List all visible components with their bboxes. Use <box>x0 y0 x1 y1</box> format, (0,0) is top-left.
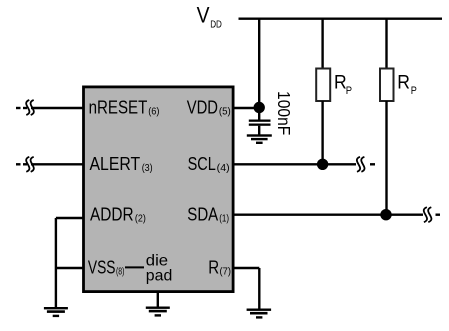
svg-text:R: R <box>334 73 347 94</box>
svg-text:V: V <box>197 3 210 28</box>
wire R2 bottom to SDA node <box>385 101 387 215</box>
svg-text:(6): (6) <box>148 106 159 118</box>
wire die pad to ground <box>157 291 159 308</box>
label RP for R2 <box>397 73 417 98</box>
wire rail to R1 top <box>321 19 323 69</box>
wire VSS pin to vertical <box>56 267 84 269</box>
wire ADDR pin to corner <box>56 217 84 219</box>
svg-text:SCL: SCL <box>188 154 216 174</box>
label die pad <box>146 252 173 284</box>
ground below R(7) <box>247 309 272 319</box>
wire SCL pin to break <box>233 163 356 165</box>
ground below die pad <box>146 307 170 317</box>
wire rail to R2 top <box>385 19 387 69</box>
wire SDA dash <box>436 213 441 215</box>
ground below ADDR/VSS <box>44 307 68 317</box>
label RP for R1 <box>334 73 352 98</box>
svg-text:P: P <box>346 85 352 97</box>
break symbol on SDA <box>424 207 432 222</box>
wire VDD top rail <box>239 18 443 20</box>
pin label ALERT(3) <box>90 154 153 174</box>
node VDD label <box>197 3 222 31</box>
wire R(7) down to ground <box>258 268 260 310</box>
pin label ADDR(2) <box>90 204 146 224</box>
pin label VSS(8) <box>88 257 125 277</box>
svg-text:(8): (8) <box>116 265 124 277</box>
wire ALERT pin <box>31 163 84 165</box>
junction SCL/R1 node <box>317 159 328 170</box>
svg-text:DD: DD <box>210 19 222 30</box>
pin label nRESET(6) <box>89 98 160 118</box>
pin label SCL(4) <box>188 154 230 174</box>
tie line VSS to die pad <box>125 266 144 268</box>
capacitor C1 bottom plate <box>249 124 271 126</box>
wire nRESET stub <box>23 107 27 109</box>
wire ADDR corner down to ground <box>55 218 57 308</box>
svg-text:100nF: 100nF <box>274 91 294 135</box>
svg-text:ALERT: ALERT <box>90 154 141 174</box>
break symbol on SCL <box>357 157 365 172</box>
svg-text:pad: pad <box>146 268 173 285</box>
svg-text:ADDR: ADDR <box>90 204 134 224</box>
svg-text:(1): (1) <box>219 212 229 224</box>
junction SDA/R2 node <box>380 209 391 220</box>
svg-text:(5): (5) <box>219 106 231 118</box>
wire nRESET pin <box>31 107 84 109</box>
pin label R(7) <box>208 258 231 278</box>
svg-text:(3): (3) <box>142 162 153 174</box>
break symbol on nRESET <box>26 100 34 115</box>
wire SDA pin to break <box>233 213 423 215</box>
wire VDD(5) pin to node <box>233 107 259 109</box>
wire C1 bottom to ground <box>258 126 260 136</box>
svg-text:SDA: SDA <box>187 204 218 224</box>
svg-text:VSS: VSS <box>88 257 116 277</box>
wire ALERT dash <box>16 163 21 165</box>
pin label VDD(5) <box>187 98 231 118</box>
wire ALERT stub <box>23 163 27 165</box>
resistor R1 body <box>316 69 330 102</box>
svg-text:VDD: VDD <box>187 98 218 118</box>
svg-text:P: P <box>411 85 417 97</box>
resistor R2 body <box>380 69 394 102</box>
svg-text:(2): (2) <box>135 212 146 224</box>
svg-text:R: R <box>208 258 219 278</box>
wire nRESET dash <box>16 107 21 109</box>
wire R(7) pin right <box>233 267 259 269</box>
wire SCL dash <box>370 163 375 165</box>
break symbol on ALERT <box>26 157 34 172</box>
wire VDD rail to C1 top <box>258 19 260 121</box>
svg-text:(4): (4) <box>217 162 230 174</box>
svg-text:(7): (7) <box>220 266 232 278</box>
junction VDD/C1 node <box>254 102 265 113</box>
wire R1 bottom to SCL node <box>321 101 323 164</box>
IC U1 body <box>84 87 234 292</box>
capacitor C1 top plate <box>249 120 271 122</box>
ground below C1 <box>247 134 272 144</box>
svg-text:R: R <box>397 73 410 94</box>
svg-text:nRESET: nRESET <box>89 98 148 118</box>
pin label SDA(1) <box>187 204 229 224</box>
